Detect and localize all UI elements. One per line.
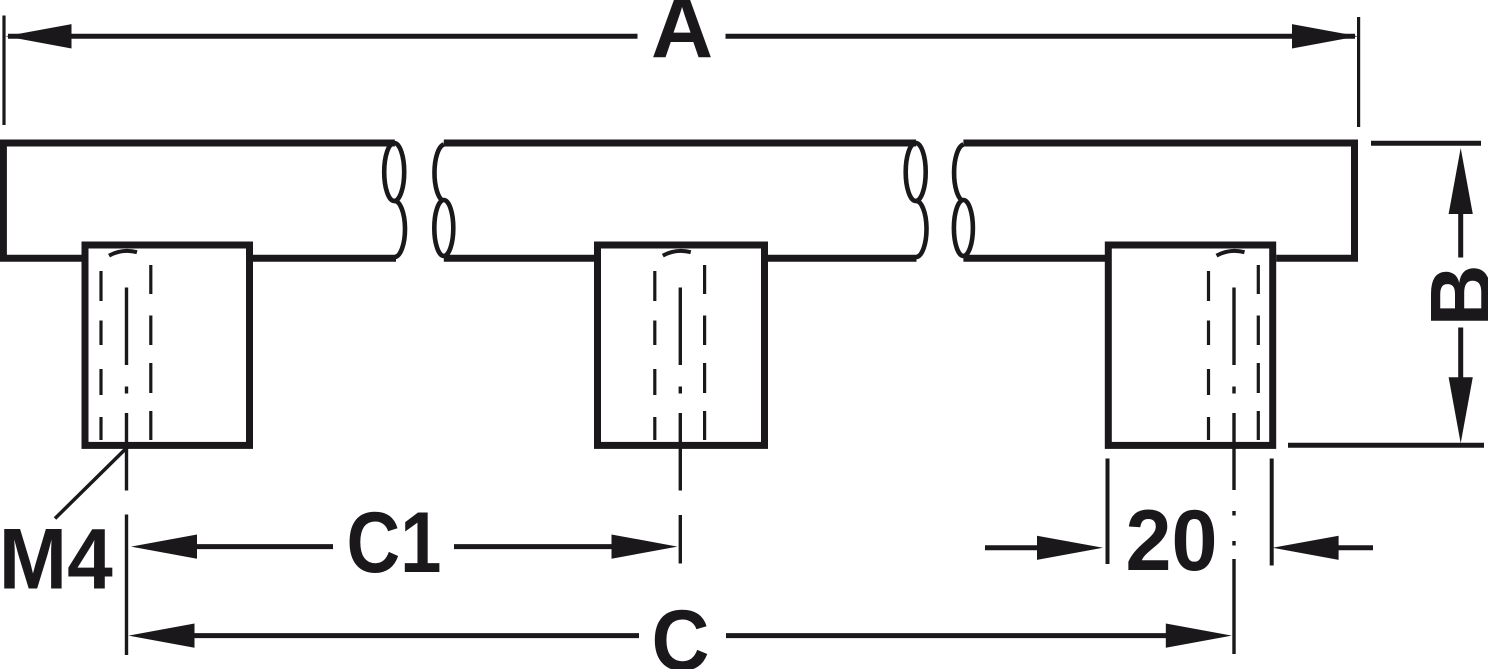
bar segment 1 bottom edge right of post 1 — [253, 255, 396, 262]
bar segment 2 bottom edge left of post 2 — [444, 255, 594, 262]
dimension A right extension line — [1357, 17, 1360, 127]
break 1 left loop — [384, 143, 404, 201]
svg-text:C1: C1 — [347, 495, 442, 591]
post 1 thread hole top arc — [109, 251, 137, 256]
dimension C1 right arrowhead — [612, 535, 678, 559]
dimension C line right part — [726, 633, 1170, 638]
dimension B line upper part — [1458, 213, 1463, 258]
dimension A right arrowhead — [1292, 24, 1358, 48]
dimension C1 left arrowhead — [131, 535, 197, 559]
post 2 thread hole top arc — [663, 251, 691, 256]
break 2 right upper curve — [954, 145, 963, 202]
break 2 right loop — [954, 200, 973, 256]
bar segment 2 bottom edge right of post 2 — [768, 255, 917, 262]
post 3 centerline extension (C extension line) — [1232, 511, 1235, 654]
post 1 thread right dashed line — [149, 265, 152, 440]
break 1 right loop — [434, 200, 453, 256]
dimension 20 left arrow tail — [985, 545, 1042, 550]
dimension C left arrowhead — [129, 624, 195, 648]
dimension A line left part — [8, 34, 638, 39]
M4 leader line — [55, 448, 127, 519]
break 2 left lower curve — [916, 201, 927, 257]
dimension A left extension line — [2, 16, 5, 126]
svg-text:20: 20 — [1126, 493, 1218, 589]
bar segment 3 outline — [963, 143, 1354, 258]
dimension B top extension line — [1371, 141, 1481, 146]
bar segment 2 top edge — [444, 140, 916, 147]
dimension C1 line left part — [150, 544, 333, 549]
post 1 thread left dashed line — [99, 271, 102, 440]
dimension B up arrowhead — [1449, 148, 1473, 214]
dimension A left arrowhead — [6, 24, 72, 48]
post 3 thread hole top arc — [1217, 251, 1245, 256]
post 1 centerline — [125, 288, 128, 491]
bar segment 1 outline — [3, 143, 394, 258]
dimension B line lower part — [1458, 328, 1463, 380]
svg-text:B: B — [1414, 264, 1488, 326]
dimension B bottom extension line — [1288, 443, 1484, 448]
dimension 20 right extension line — [1270, 459, 1274, 566]
dimension 20 right arrowhead — [1273, 536, 1339, 560]
post 2 centerline — [679, 288, 682, 491]
svg-text:A: A — [651, 0, 713, 76]
dimension C1 line right part — [454, 544, 614, 549]
post 3 thread right dashed line — [1257, 265, 1260, 440]
dimension B down arrowhead — [1449, 377, 1473, 443]
svg-text:M4: M4 — [0, 512, 113, 608]
dimension C right arrowhead — [1166, 624, 1232, 648]
post 3 thread left dashed line — [1207, 271, 1210, 440]
break 1 right upper curve — [434, 145, 443, 202]
dimension A line right part — [726, 34, 1356, 39]
dimension 20 left extension line — [1106, 459, 1110, 565]
dimension 20 right arrow tail — [1337, 545, 1373, 550]
dimension C line left part — [148, 633, 639, 638]
post 1 body — [85, 245, 250, 445]
dimension 20 left arrowhead — [1037, 536, 1103, 560]
post 2 body — [598, 245, 765, 445]
break 1 left lower curve — [394, 201, 405, 257]
post 3 centerline — [1232, 288, 1235, 491]
post 1 centerline extension (C1 / C extension line) — [125, 515, 128, 656]
break 2 left loop — [906, 143, 926, 201]
svg-text:C: C — [652, 593, 710, 669]
bar segment 3 bottom edge left of post 3 — [963, 255, 1105, 262]
post 2 centerline extension (C1 extension line) — [679, 515, 682, 564]
post 2 thread right dashed line — [703, 265, 706, 440]
post 3 body — [1108, 245, 1272, 445]
post 2 thread left dashed line — [653, 271, 656, 440]
